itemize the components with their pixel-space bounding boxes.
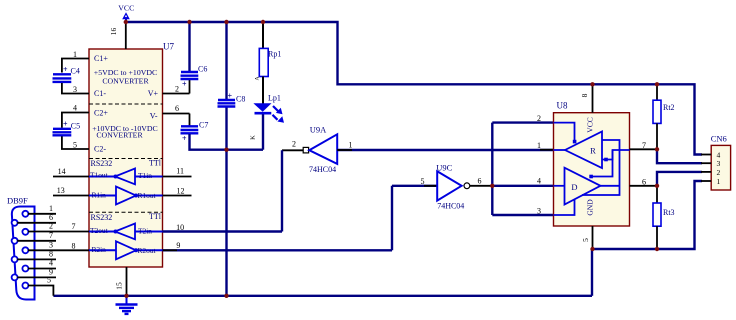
wire U8 pin6 to Rt3/CN6 xyxy=(630,172,703,186)
svg-text:16: 16 xyxy=(109,28,118,36)
svg-text:C6: C6 xyxy=(198,65,207,74)
junction U7 pin15 ground xyxy=(124,294,128,298)
svg-text:1: 1 xyxy=(537,141,541,150)
svg-text:T1in: T1in xyxy=(138,171,152,180)
wire C7 to ground node xyxy=(190,134,264,150)
capacitor C7 xyxy=(181,121,209,143)
wire GND net right xyxy=(592,181,702,296)
wire Rp1 to Lp1 xyxy=(262,77,264,104)
svg-text:C1+: C1+ xyxy=(94,54,108,63)
junction Rt3 bottom xyxy=(655,247,659,251)
svg-text:R2in: R2in xyxy=(92,245,107,254)
connector CN6 xyxy=(701,134,731,191)
svg-text:5: 5 xyxy=(47,276,51,285)
svg-text:C8: C8 xyxy=(236,95,245,104)
inverter U9C xyxy=(436,162,470,210)
wire VCC rail top xyxy=(126,22,702,155)
pin 6 wire U7 V- to C7 xyxy=(163,104,190,126)
svg-text:Lp1: Lp1 xyxy=(268,94,281,103)
svg-text:4: 4 xyxy=(537,177,541,186)
svg-text:C5: C5 xyxy=(71,121,80,130)
junction ground node C7/C8/Lp1 xyxy=(224,148,228,152)
svg-text:GND: GND xyxy=(585,199,594,216)
wire C8 to ground bus xyxy=(225,107,227,296)
driver D in U8 xyxy=(554,150,621,215)
IC U7 body xyxy=(89,42,174,268)
svg-text:VCC: VCC xyxy=(118,4,134,13)
svg-text:6: 6 xyxy=(175,104,179,113)
svg-text:TTl: TTl xyxy=(149,212,162,221)
LED Lp1 xyxy=(250,94,285,140)
junction U8 pin8 VCC xyxy=(590,82,594,86)
svg-text:2: 2 xyxy=(49,221,53,230)
svg-text:3: 3 xyxy=(73,85,77,94)
svg-text:8: 8 xyxy=(580,93,589,97)
svg-text:+: + xyxy=(182,80,187,89)
svg-text:5: 5 xyxy=(73,140,77,149)
pin 13 stub U7 xyxy=(53,186,89,196)
svg-text:4: 4 xyxy=(73,103,77,112)
pin 1 wire U7 to C4 xyxy=(62,50,89,73)
wire U8 pin7 to Rt2/CN6 xyxy=(630,141,703,163)
svg-text:2: 2 xyxy=(717,168,721,177)
pin 11 stub U7 xyxy=(163,166,192,176)
svg-text:V-: V- xyxy=(150,112,158,121)
svg-text:A: A xyxy=(255,76,261,80)
svg-text:K: K xyxy=(250,135,257,140)
junction C8 bottom ground xyxy=(224,294,228,298)
svg-text:TTl: TTl xyxy=(149,159,162,168)
capacitor C4 xyxy=(53,65,80,82)
capacitor C6 xyxy=(181,65,208,89)
svg-text:CONVERTER: CONVERTER xyxy=(102,77,149,86)
svg-text:Rt2: Rt2 xyxy=(663,103,675,112)
wire U8 pins 2-3 tie xyxy=(492,114,553,216)
resistor Rp1 xyxy=(255,48,282,80)
svg-text:3: 3 xyxy=(537,207,541,216)
svg-text:U9C: U9C xyxy=(436,162,452,172)
svg-text:7: 7 xyxy=(72,222,76,231)
svg-text:74HC04: 74HC04 xyxy=(437,202,464,211)
junction U8 pin5 gnd xyxy=(590,247,594,251)
junction VCC node xyxy=(124,20,128,24)
junction U8 pin7 Rt2 xyxy=(655,147,659,151)
svg-text:5: 5 xyxy=(581,238,590,242)
svg-text:12: 12 xyxy=(177,186,185,195)
svg-text:+: + xyxy=(182,134,187,143)
svg-text:U9A: U9A xyxy=(310,125,327,135)
wire Lp1 cathode down xyxy=(262,114,264,149)
svg-text:RS232: RS232 xyxy=(91,159,113,168)
buffer R2 in U7 xyxy=(89,241,163,259)
svg-text:C4: C4 xyxy=(71,67,80,76)
svg-text:T1out: T1out xyxy=(90,171,109,180)
svg-text:7: 7 xyxy=(642,141,646,150)
svg-text:CN6: CN6 xyxy=(711,134,727,144)
svg-text:+: + xyxy=(63,120,68,129)
svg-text:R2out: R2out xyxy=(138,246,157,255)
buffer T1 in U7 xyxy=(89,169,163,185)
pin 15 U7 xyxy=(115,267,127,296)
wire U7 R2out to U9C input xyxy=(163,177,438,251)
svg-text:1: 1 xyxy=(73,50,77,59)
svg-text:U8: U8 xyxy=(557,101,568,111)
svg-text:C1-: C1- xyxy=(94,89,106,98)
svg-text:R1in: R1in xyxy=(92,191,107,200)
svg-text:C2+: C2+ xyxy=(94,109,108,118)
pin 8 U8 xyxy=(580,84,593,112)
svg-text:6: 6 xyxy=(642,177,646,186)
svg-text:3: 3 xyxy=(49,240,53,249)
connector DB9F xyxy=(7,196,35,300)
IC U8 body xyxy=(554,101,630,227)
svg-text:C7: C7 xyxy=(199,121,208,130)
receiver R in U8 xyxy=(554,123,630,195)
junction C6 top xyxy=(187,20,191,24)
pin 5 U8 xyxy=(581,226,593,249)
resistor Rt3 xyxy=(653,186,675,249)
pin 2 wire U7 V+ to C6 xyxy=(163,80,190,94)
svg-text:3: 3 xyxy=(717,159,721,168)
svg-text:+: + xyxy=(63,65,68,74)
pin 4 wire U7 to C5 xyxy=(62,103,89,128)
junction Rp1 top xyxy=(261,20,265,24)
wire U9C output to U8 xyxy=(470,176,554,186)
inverter U9A xyxy=(303,125,337,174)
capacitor C5 xyxy=(53,120,81,136)
svg-text:R1out: R1out xyxy=(138,191,157,200)
svg-text:Rp1: Rp1 xyxy=(268,50,281,59)
svg-text:R: R xyxy=(590,146,596,156)
buffer R1 in U7 xyxy=(89,187,163,205)
pin 5 wire U7 to C5 xyxy=(62,136,89,149)
svg-text:4: 4 xyxy=(717,151,721,160)
wire Rp1 to VCC rail xyxy=(262,22,264,48)
DB9F pin stubs xyxy=(17,204,56,278)
svg-text:8: 8 xyxy=(72,242,76,251)
resistor Rt2 xyxy=(653,84,675,149)
pin 16 U7 xyxy=(109,22,126,49)
svg-text:5: 5 xyxy=(421,177,425,186)
svg-text:15: 15 xyxy=(115,282,124,290)
svg-text:6: 6 xyxy=(478,176,482,185)
svg-text:RS232: RS232 xyxy=(91,213,113,222)
wire DB9F pin2 to U7 pin7 xyxy=(28,221,89,231)
svg-text:13: 13 xyxy=(57,186,65,195)
ground symbol xyxy=(116,296,138,314)
wire U9A input net xyxy=(163,140,304,232)
svg-text:1: 1 xyxy=(349,141,353,150)
capacitor C8 xyxy=(218,92,246,107)
svg-text:2: 2 xyxy=(537,114,541,123)
wire DB9F pin5 to ground bus xyxy=(28,276,53,296)
svg-text:V+: V+ xyxy=(148,89,159,98)
svg-text:9: 9 xyxy=(176,241,180,250)
junction C8 top xyxy=(224,20,228,24)
wire ground bus xyxy=(53,295,592,297)
svg-text:11: 11 xyxy=(176,166,184,175)
svg-text:2: 2 xyxy=(175,84,179,93)
svg-text:VCC: VCC xyxy=(585,117,594,132)
wire DB9F pin3 to U7 pin8 xyxy=(28,240,89,250)
svg-text:1: 1 xyxy=(49,204,53,213)
svg-text:74HC04: 74HC04 xyxy=(309,165,336,174)
svg-text:4: 4 xyxy=(49,259,53,268)
svg-text:14: 14 xyxy=(58,167,66,176)
svg-text:T2in: T2in xyxy=(138,226,152,235)
power flag VCC xyxy=(118,4,134,23)
svg-text:U7: U7 xyxy=(163,42,174,52)
buffer T2 in U7 xyxy=(89,224,163,240)
junction U8 direction tie xyxy=(490,184,494,188)
svg-text:C2-: C2- xyxy=(94,144,106,153)
svg-text:Rt3: Rt3 xyxy=(663,208,675,217)
svg-text:T2out: T2out xyxy=(90,226,109,235)
svg-text:1: 1 xyxy=(717,177,721,186)
wire C6 to VCC rail xyxy=(188,22,190,72)
junction Rt2 top xyxy=(655,82,659,86)
svg-text:10: 10 xyxy=(176,223,184,232)
svg-text:2: 2 xyxy=(292,140,296,149)
pin 14 stub U7 xyxy=(53,167,89,177)
wire U9A output to U8 pin 1 xyxy=(337,141,553,151)
svg-text:+: + xyxy=(228,92,233,101)
junction U8 pin6 Rt3 xyxy=(655,184,659,188)
pin 3 wire U7 to C4 xyxy=(62,83,89,94)
wire C8 to VCC rail xyxy=(225,22,227,100)
pin 12 stub U7 xyxy=(163,186,192,195)
svg-text:DB9F: DB9F xyxy=(7,196,28,206)
svg-text:CONVERTER: CONVERTER xyxy=(96,131,143,140)
svg-text:D: D xyxy=(571,182,577,192)
